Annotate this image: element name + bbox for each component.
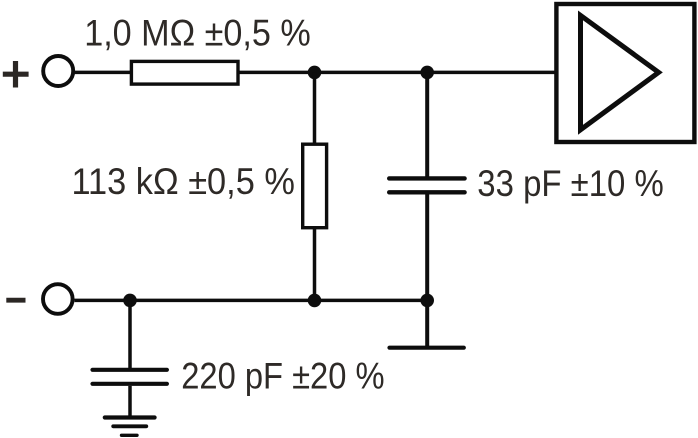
wire: + terminal to resistor R — [75, 71, 132, 75]
op-amp U1 box — [556, 4, 694, 142]
input terminal (+) — [43, 56, 73, 86]
wire: top node down to resistor 113k — [313, 72, 317, 143]
resistor 113 kΩ — [303, 144, 327, 228]
junction: bottom node at 220pF capacitor — [123, 294, 137, 308]
svg-text:220 pF ±20 %: 220 pF ±20 % — [181, 354, 384, 396]
junction: top node at 113k resistor — [308, 66, 322, 80]
plus sign (non-inverting input marker) — [3, 61, 29, 88]
junction: bottom node at 113k resistor — [308, 294, 322, 308]
resistor 1,0 MΩ — [131, 61, 238, 84]
junction: bottom node at 33pF capacitor — [420, 294, 434, 308]
common bar (single-line ground) below 33pF node — [390, 346, 464, 350]
junction: top node at 33pF capacitor — [420, 66, 434, 80]
op-amp U1 triangle — [581, 15, 659, 129]
wire: bottom node down to capacitor 220pF — [128, 300, 132, 368]
input terminal (−) — [43, 284, 73, 314]
wire: top node down to capacitor 33pF — [425, 72, 429, 176]
minus sign (inverting input marker) — [6, 298, 25, 303]
wire: resistor to amplifier (top rail) — [239, 71, 555, 75]
capacitor 33 pF plates — [389, 178, 464, 192]
wire: resistor 113k down to bottom rail — [313, 229, 317, 301]
svg-text:113 kΩ ±0,5 %: 113 kΩ ±0,5 % — [72, 160, 295, 202]
wire: capacitor 33pF down to bottom rail — [425, 194, 429, 300]
svg-text:1,0 MΩ ±0,5 %: 1,0 MΩ ±0,5 % — [84, 12, 311, 54]
wire: − terminal along bottom rail to 33pF node — [75, 299, 428, 303]
ground — [105, 418, 155, 436]
wire: bottom node stub down to common bar — [425, 300, 429, 347]
wire: capacitor 220pF down to ground — [128, 386, 132, 418]
svg-text:33 pF ±10 %: 33 pF ±10 % — [477, 162, 664, 204]
capacitor 220 pF plates — [93, 370, 167, 384]
